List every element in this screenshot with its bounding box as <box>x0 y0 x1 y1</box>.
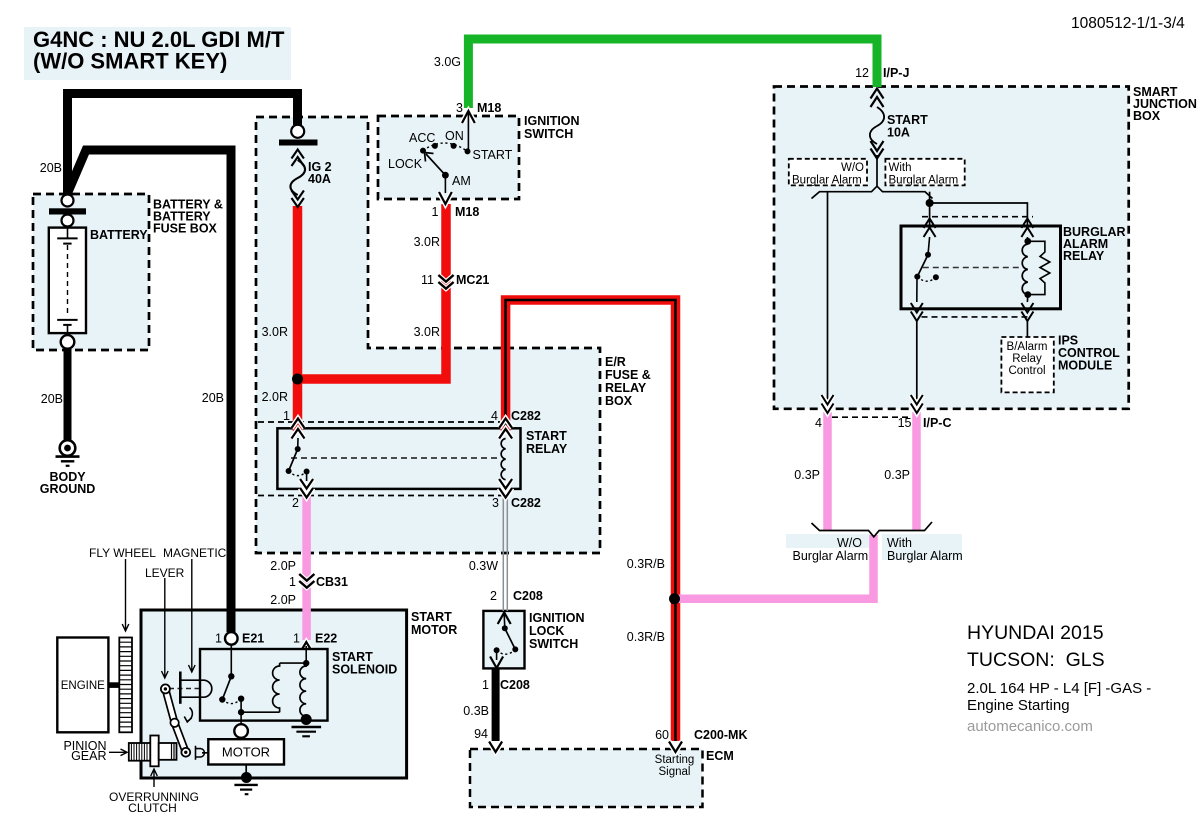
svg-text:1: 1 <box>215 632 222 646</box>
burglar relay pin chevrons top left <box>924 219 936 229</box>
svg-text:3.0R: 3.0R <box>414 235 440 249</box>
C282 connector dashed line top <box>258 421 500 423</box>
svg-text:Relay: Relay <box>1012 353 1042 365</box>
svg-text:20B: 20B <box>202 391 224 405</box>
wire 0.3P pink merged down and left to junction on 0.3R/B <box>673 535 874 599</box>
svg-text:LOCK: LOCK <box>388 157 423 171</box>
SJB wire from fuse to option split <box>876 155 878 187</box>
motor ground <box>234 765 257 795</box>
connector E21 circle <box>225 632 238 645</box>
burglar relay pin chevrons bottom right <box>1021 303 1033 313</box>
svg-text:BOX: BOX <box>605 394 633 408</box>
start solenoid box <box>200 649 328 721</box>
svg-text:1: 1 <box>293 632 300 646</box>
C282 connector dashed line bottom <box>258 495 502 497</box>
svg-text:E/R: E/R <box>605 355 626 369</box>
I/P-C connector dashed line <box>832 416 912 418</box>
battery fusible link connector circle bottom <box>62 215 74 227</box>
svg-text:3.0R: 3.0R <box>262 325 288 339</box>
svg-text:2.0P: 2.0P <box>270 593 296 607</box>
svg-text:M18: M18 <box>477 101 501 115</box>
svg-text:Control: Control <box>1008 365 1045 377</box>
ignition switch internals <box>420 113 471 193</box>
svg-text:C208: C208 <box>500 678 530 692</box>
svg-text:BOX: BOX <box>1133 109 1161 123</box>
ECM box <box>470 749 703 807</box>
svg-text:START: START <box>526 429 567 443</box>
svg-text:1: 1 <box>482 678 489 692</box>
svg-text:C208: C208 <box>513 589 543 603</box>
burglar relay actuation dashed line <box>923 267 1024 269</box>
svg-text:W/O: W/O <box>837 536 862 550</box>
svg-text:With: With <box>889 162 912 174</box>
W/O burglar alarm option box <box>789 159 867 186</box>
start relay pin3 chevrons <box>499 479 512 489</box>
start relay pin4 chevrons <box>499 419 512 429</box>
solenoid axis dashed line <box>169 688 298 690</box>
battery bottom connector circle <box>61 335 75 349</box>
svg-text:0.3P: 0.3P <box>794 468 820 482</box>
svg-text:Burglar Alarm: Burglar Alarm <box>889 175 959 187</box>
svg-text:ECM: ECM <box>706 749 734 763</box>
svg-text:RELAY: RELAY <box>605 381 647 395</box>
svg-text:3.0G: 3.0G <box>434 55 461 69</box>
svg-text:1: 1 <box>432 205 439 219</box>
fusible link bar <box>49 208 86 214</box>
wire relay to pin 15 <box>916 321 918 400</box>
lever linkage <box>161 684 192 756</box>
svg-text:SOLENOID: SOLENOID <box>332 663 397 677</box>
svg-text:1: 1 <box>283 409 290 423</box>
svg-text:MC21: MC21 <box>456 273 489 287</box>
svg-text:60: 60 <box>655 728 669 742</box>
fuse START 10A <box>870 107 884 144</box>
svg-text:0.3R/B: 0.3R/B <box>627 557 665 571</box>
option split wishbone <box>812 186 933 198</box>
battery & battery fuse box <box>33 194 149 350</box>
label arrow flywheel <box>122 559 129 631</box>
svg-text:FUSE &: FUSE & <box>605 368 651 382</box>
svg-text:automecanico.com: automecanico.com <box>967 718 1093 735</box>
svg-text:2: 2 <box>292 496 299 510</box>
svg-text:I/P-C: I/P-C <box>923 416 951 430</box>
ignition switch box <box>378 116 519 199</box>
wire 0.3R/B black stripe <box>506 300 676 741</box>
battery fusible link connector circle top <box>62 195 74 207</box>
svg-text:MODULE: MODULE <box>1058 359 1112 373</box>
B/Alarm relay control box (IPS) <box>1001 337 1053 392</box>
svg-text:HYUNDAI 2015: HYUNDAI 2015 <box>967 622 1104 644</box>
svg-text:I/P-J: I/P-J <box>883 66 909 80</box>
svg-text:MAGNETIC: MAGNETIC <box>163 546 227 560</box>
pinion gear <box>129 743 151 761</box>
svg-text:Burglar Alarm: Burglar Alarm <box>887 549 963 563</box>
svg-text:GROUND: GROUND <box>40 482 96 496</box>
flywheel <box>119 638 132 733</box>
svg-text:2: 2 <box>490 589 497 603</box>
wire 20B battery to body ground <box>64 348 72 442</box>
connector 1 M18 chevron <box>439 192 452 204</box>
svg-text:IGNITION: IGNITION <box>524 114 580 128</box>
svg-text:12: 12 <box>855 66 869 80</box>
svg-text:20B: 20B <box>41 392 63 406</box>
svg-text:Engine Starting: Engine Starting <box>967 697 1070 714</box>
junction node on 0.3R/B wire <box>669 593 680 604</box>
svg-text:Starting: Starting <box>655 754 695 766</box>
svg-text:CLUTCH: CLUTCH <box>128 801 177 815</box>
svg-text:1: 1 <box>289 575 296 589</box>
svg-text:IGNITION: IGNITION <box>529 611 585 625</box>
svg-text:Signal: Signal <box>659 766 691 778</box>
battery B <box>49 228 86 334</box>
svg-text:3: 3 <box>456 101 463 115</box>
svg-text:C282: C282 <box>511 496 541 510</box>
burglar alarm relay box <box>901 226 1061 309</box>
svg-text:2.0R: 2.0R <box>262 390 288 404</box>
svg-text:E21: E21 <box>242 632 264 646</box>
overrunning clutch <box>150 736 176 767</box>
svg-text:MOTOR: MOTOR <box>411 623 457 637</box>
svg-text:20B: 20B <box>40 161 62 175</box>
svg-text:FUSE BOX: FUSE BOX <box>153 222 218 236</box>
wire 0.3P pink SJB pin15 down <box>912 412 921 530</box>
burglar relay pin chevrons bottom left <box>911 303 923 313</box>
connector CB31 double chevron <box>299 574 314 581</box>
svg-text:15: 15 <box>898 416 912 430</box>
svg-text:(W/O SMART KEY): (W/O SMART KEY) <box>33 49 227 74</box>
svg-text:With: With <box>887 536 912 550</box>
svg-text:ACC: ACC <box>409 131 435 145</box>
lever fork to motor <box>196 746 209 760</box>
SJB wire With branch down to relay <box>929 192 931 226</box>
burglar relay connector dashed line bottom <box>922 316 1028 318</box>
svg-text:W/O: W/O <box>841 162 864 174</box>
svg-text:C200-MK: C200-MK <box>694 728 748 742</box>
svg-text:START: START <box>411 610 452 624</box>
svg-text:RELAY: RELAY <box>1063 249 1105 263</box>
start relay pin2 chevrons <box>300 479 313 489</box>
svg-text:2.0L 164 HP - L4 [F] -GAS -: 2.0L 164 HP - L4 [F] -GAS - <box>967 680 1151 697</box>
svg-text:START: START <box>473 148 513 162</box>
svg-text:Burglar Alarm: Burglar Alarm <box>792 175 862 187</box>
ECM pin 94 chevron <box>489 742 502 753</box>
start relay box <box>277 428 520 489</box>
connector 11 MC21 double chevron <box>438 275 453 282</box>
svg-text:94: 94 <box>474 727 488 741</box>
svg-text:SWITCH: SWITCH <box>524 127 573 141</box>
svg-text:AM: AM <box>452 174 471 188</box>
wire relay to B/Alarm control <box>1026 321 1028 337</box>
label arrow lever <box>162 578 169 678</box>
svg-text:0.3P: 0.3P <box>884 468 910 482</box>
start motor box <box>141 610 407 778</box>
SJB pin 4 chevrons <box>822 395 834 405</box>
svg-text:M18: M18 <box>455 205 479 219</box>
svg-text:0.3R/B: 0.3R/B <box>627 630 665 644</box>
svg-text:E22: E22 <box>315 632 337 646</box>
wire 0.3P pink SJB pin4 down <box>823 412 832 530</box>
start relay actuation dashed line <box>291 457 500 459</box>
solenoid ground <box>292 714 322 736</box>
svg-text:BATTERY: BATTERY <box>90 228 148 242</box>
With burglar alarm option box <box>885 159 964 186</box>
svg-text:11: 11 <box>421 273 434 287</box>
motor box <box>208 739 284 764</box>
label arrow pinion gear <box>109 749 127 756</box>
smart junction box <box>774 87 1129 409</box>
wire 3.0G green ignition to SJB <box>468 39 877 108</box>
svg-text:ENGINE: ENGINE <box>61 680 105 692</box>
connector 3 M18 chevron <box>462 111 475 123</box>
wire 3.0R red from M18 pin1 down through MC21 then left to junction <box>302 204 446 379</box>
svg-text:LOCK: LOCK <box>529 624 564 638</box>
svg-text:4: 4 <box>815 416 822 430</box>
engine box <box>57 638 108 733</box>
svg-text:3: 3 <box>492 496 499 510</box>
junction node 2.0R <box>292 374 303 385</box>
fuse IG 2 40A <box>279 125 318 207</box>
start relay coil <box>501 439 505 480</box>
junction node SJB <box>926 199 934 207</box>
solenoid coils <box>241 646 309 716</box>
wire 20B battery to E21 start motor <box>68 150 231 632</box>
label arrow overrunning clutch <box>151 769 158 787</box>
svg-text:C282: C282 <box>511 409 541 423</box>
burglar relay switch <box>914 237 939 302</box>
E/R fuse & relay box <box>256 117 600 553</box>
svg-text:3.0R: 3.0R <box>414 325 440 339</box>
SJB pin 12 I/P-J chevrons <box>871 89 884 99</box>
svg-text:SWITCH: SWITCH <box>529 637 578 651</box>
wire 0.3R/B red part: relay pin4 up, right, down to ECM pin 60 <box>506 300 676 741</box>
svg-text:RELAY: RELAY <box>526 442 568 456</box>
wire 0.3B black: ignition lock switch to ECM pin 94 <box>493 668 498 741</box>
SJB wire to relay coil <box>930 203 1028 226</box>
connector 1 C208 chevron <box>490 657 503 669</box>
pink merge brace <box>812 522 933 537</box>
burglar relay pin chevrons top right <box>1021 219 1033 229</box>
svg-text:Burglar Alarm: Burglar Alarm <box>793 549 869 563</box>
svg-text:ON: ON <box>445 129 464 143</box>
engine shaft <box>108 682 119 688</box>
connector 2 C208 chevron <box>498 613 511 625</box>
svg-text:40A: 40A <box>308 172 331 186</box>
svg-text:1080512-1/1-3/4: 1080512-1/1-3/4 <box>1071 15 1185 32</box>
burglar relay connector dashed line top <box>922 216 1033 218</box>
svg-text:0.3B: 0.3B <box>463 704 489 718</box>
body ground symbol <box>56 440 80 466</box>
svg-text:4: 4 <box>491 409 498 423</box>
svg-text:CB31: CB31 <box>316 575 348 589</box>
svg-text:B/Alarm: B/Alarm <box>1007 341 1048 353</box>
SJB pin 15 chevrons <box>911 395 923 405</box>
label arrow magnetic <box>189 559 196 672</box>
ignition lock switch internals <box>494 614 519 660</box>
ignition lock switch box <box>483 611 524 669</box>
svg-text:0.3W: 0.3W <box>469 559 498 573</box>
burglar alarm option label highlights <box>786 534 872 548</box>
wire 20B battery top to IG2 fuse <box>68 94 298 197</box>
start relay pin1 chevrons <box>292 419 305 429</box>
connector E22 chevron <box>299 642 314 655</box>
svg-text:2.0P: 2.0P <box>270 559 296 573</box>
svg-text:TUCSON: GLS: TUCSON: GLS <box>967 649 1105 671</box>
svg-text:FLY WHEEL: FLY WHEEL <box>89 546 156 560</box>
ECM pin 60 chevron <box>669 742 682 753</box>
motor terminal circle <box>240 712 242 725</box>
svg-text:MOTOR: MOTOR <box>222 745 270 760</box>
title background <box>24 27 291 80</box>
magnetic plunger <box>180 672 211 704</box>
start relay switch <box>286 438 310 481</box>
wire 2.0P pink relay pin2 to E22 <box>302 489 311 640</box>
svg-text:LEVER: LEVER <box>145 566 185 580</box>
burglar relay coil and resistor <box>1022 237 1050 302</box>
solenoid switch <box>219 644 244 715</box>
wire 0.3W white: relay pin3 to ignition lock switch <box>502 489 504 611</box>
wire 3.0R red from IG2 fuse down to start relay pin 1 (2.0R lower) <box>293 206 303 431</box>
SJB wire W/O branch down to pin 4 <box>827 192 829 400</box>
svg-text:GEAR: GEAR <box>71 749 106 763</box>
svg-text:10A: 10A <box>887 126 910 140</box>
